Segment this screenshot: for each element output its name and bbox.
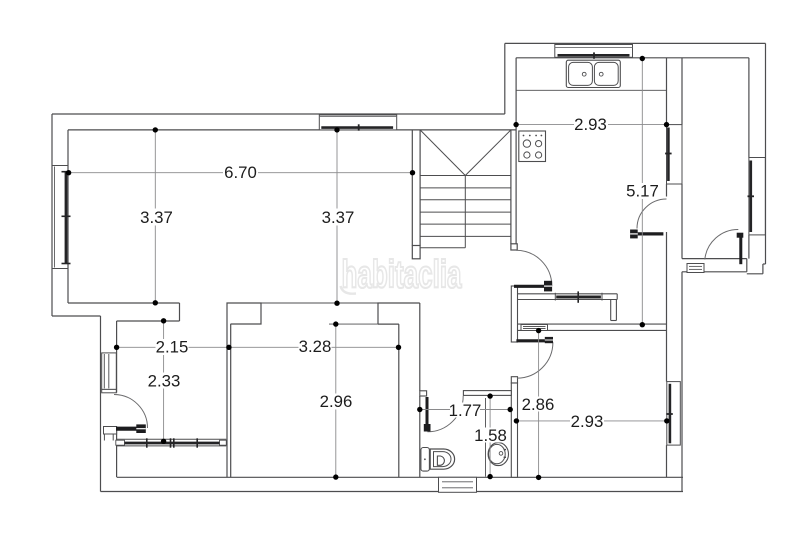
stair-kitchen partition left line	[510, 130, 512, 244]
wall stub left of hall	[227, 303, 261, 324]
right wall step vertical	[762, 264, 764, 274]
closet glazed band top line	[518, 293, 618, 295]
window W7 lower-left wall small window	[102, 353, 117, 390]
label 3.28	[299, 339, 332, 355]
dimension 2.33 line	[163, 321, 165, 442]
kitchen exterior left wall outer line	[504, 43, 506, 114]
label 2.15	[156, 339, 189, 355]
dimension 5.17 line	[641, 59, 643, 325]
svg-text:3.28: 3.28	[299, 337, 332, 356]
door D3 end post	[545, 337, 553, 343]
svg-text:habitaclia: habitaclia	[341, 252, 462, 295]
wall bottom inner line	[117, 476, 683, 478]
right wall inner line upper segment	[748, 58, 750, 158]
washbasin	[488, 443, 508, 466]
window W11 gallery bottom wall small window	[687, 264, 704, 273]
dimension 3.37 left line	[154, 130, 156, 303]
label 6.70	[223, 164, 258, 181]
dimension lines	[69, 59, 667, 478]
window W6 bottom-right room right wall	[666, 382, 680, 446]
dimension 2.93 bottom line	[516, 420, 666, 422]
dimension node dots	[66, 56, 670, 480]
label 2.96	[320, 394, 353, 410]
label 2.86	[522, 397, 554, 412]
room3 top wall bottom edge at stub	[378, 323, 399, 325]
window W1 left wall	[52, 166, 71, 269]
door D2 leaf	[514, 285, 548, 288]
label 5.17	[626, 183, 657, 199]
dimension 1.58 line	[489, 396, 491, 477]
window W4 gallery right wall	[748, 158, 766, 235]
door D1 leaf	[116, 427, 141, 431]
svg-text:2.93: 2.93	[574, 115, 607, 134]
room3 top thin line	[329, 323, 399, 325]
stairwell left wall inner line	[419, 130, 421, 246]
partition between small rooms left line	[226, 324, 228, 477]
closet right partition end cap	[611, 320, 617, 322]
gallery bottom wall bottom edge	[682, 271, 747, 273]
stairs diagonal left	[420, 130, 465, 176]
svg-text:6.70: 6.70	[224, 163, 257, 182]
right wall inner line lower segment	[748, 235, 750, 259]
svg-text:2.93: 2.93	[571, 412, 604, 431]
door D4 bottom blob	[424, 424, 431, 432]
closet glazed band right end	[616, 294, 618, 300]
gallery bottom wall right end cap	[746, 259, 748, 272]
wall lower-left inner vertical lower segment	[116, 427, 118, 478]
svg-text:1.58: 1.58	[474, 426, 507, 445]
watermark swoosh under h	[341, 286, 357, 294]
wall top exterior inner line	[68, 129, 516, 131]
stairs	[420, 130, 511, 248]
wall stub right of hall	[378, 303, 420, 324]
wall lower-left outer line	[100, 316, 102, 492]
stair-kitchen partition right line	[515, 58, 517, 244]
kitchen counter front line	[516, 89, 666, 91]
room3 right wall line	[398, 324, 400, 477]
dimension 1.77 line	[420, 409, 510, 411]
door D2 hall-kitchen arc	[516, 250, 552, 286]
window W9 lower-left glazed band	[116, 438, 227, 447]
closet bottom wall band bottom edge	[518, 329, 667, 331]
corridor left wall line lower	[419, 396, 421, 477]
bathroom right wall jamb box	[511, 377, 517, 383]
toilet	[421, 448, 455, 472]
bathroom door hinge jamb box	[420, 391, 427, 396]
dimension 2.86 line	[538, 331, 540, 478]
label 2.93 bottom	[570, 414, 604, 429]
stair-kitchen partition end cap	[511, 244, 517, 250]
bathroom separator thin line	[485, 398, 487, 477]
door D5 leaf	[638, 232, 664, 235]
right wall outer line	[765, 43, 767, 264]
kitchen top wall inner line	[516, 57, 749, 59]
kitchen-gallery wall right line segments	[681, 58, 683, 492]
svg-text:2.86: 2.86	[522, 395, 555, 414]
dimension 2.93 top line	[516, 124, 666, 126]
dimension 2.96 line	[335, 324, 337, 477]
label 1.77	[450, 403, 480, 418]
svg-text:2.96: 2.96	[320, 392, 353, 411]
door D3 leaf	[516, 339, 550, 342]
label 3.37 right	[322, 209, 355, 226]
door D6 gallery bottom arc	[705, 229, 739, 259]
closet left wall band	[511, 286, 517, 342]
svg-text:3.37: 3.37	[322, 208, 355, 227]
door D5 end post	[630, 230, 638, 239]
partition between small rooms right line	[230, 324, 232, 477]
door D1 jamb box top	[102, 389, 117, 392]
wall band living-room bottom top edge	[68, 302, 180, 304]
door D6 leaf	[739, 233, 742, 264]
gallery bottom wall top edge left part	[682, 258, 747, 260]
door D6 hinge blob	[737, 233, 744, 238]
bathroom top wall band	[463, 391, 511, 396]
kitchen top wall outer line	[505, 42, 766, 44]
hall opening thin line	[261, 302, 378, 304]
closet right partition left line	[610, 300, 612, 321]
wall left exterior outer line	[51, 114, 53, 316]
stairwell left wall outer line	[411, 130, 413, 246]
wall bottom outer line	[101, 491, 684, 493]
door D1 jamb box bottom	[104, 427, 117, 435]
dimension labels	[140, 115, 659, 445]
door D3 bottom room arc	[517, 342, 553, 378]
stairs diagonal right	[465, 130, 511, 176]
svg-text:1.77: 1.77	[449, 401, 482, 420]
dimension 6.70 line	[69, 172, 413, 174]
window W12 bathroom bottom wall window	[439, 477, 477, 492]
svg-text:3.37: 3.37	[140, 208, 173, 227]
label 3.37 left	[140, 209, 173, 226]
stairwell left wall end cap	[412, 246, 420, 259]
wall lower-left inner vertical upper segment	[116, 321, 118, 393]
right wall bottom cap line	[763, 263, 766, 265]
svg-text:5.17: 5.17	[626, 181, 659, 200]
label 2.93 top	[574, 116, 608, 133]
bathroom right wall band	[511, 383, 517, 477]
door D4 leaf	[426, 397, 429, 432]
watermark habitaclia	[341, 252, 462, 295]
label 2.33	[148, 373, 180, 389]
closet right partition right line	[615, 300, 617, 321]
wall piece below jamb	[103, 434, 105, 441]
door D2 end post	[544, 281, 552, 292]
corridor left wall line upper	[419, 303, 421, 391]
stairs center line	[464, 176, 466, 248]
wall left step bottom edge	[52, 315, 101, 317]
window W10 closet bottom wall small window	[521, 325, 548, 331]
right wall step horizontal	[747, 273, 763, 275]
wall band living-room bottom lower edge	[117, 320, 180, 322]
window W5 kitchen-gallery wall	[665, 125, 682, 184]
closet glazed band bottom line	[518, 299, 618, 301]
label 1.58	[476, 428, 505, 443]
window W3 kitchen top wall	[555, 45, 633, 59]
window W2 top wall	[319, 115, 396, 131]
window W8 closet glazed bar	[555, 291, 602, 302]
kitchen sink	[566, 60, 620, 87]
svg-text:2.15: 2.15	[156, 338, 189, 357]
door D1 arc	[114, 395, 148, 429]
dimension 2.15 and 3.28 line	[117, 346, 399, 348]
svg-text:2.33: 2.33	[148, 371, 181, 390]
wall top exterior outer line	[52, 113, 505, 115]
door D1 end post	[136, 424, 146, 433]
closet bottom wall band top edge	[518, 323, 667, 325]
kitchen stove	[519, 131, 546, 162]
kitchen-gallery wall left line segments	[666, 58, 668, 478]
dimension 3.37 right line	[336, 130, 338, 303]
wall left exterior inner line	[67, 130, 69, 303]
wall band living-room bottom right end	[179, 303, 181, 321]
door D4 bathroom arc	[427, 396, 463, 432]
door D5 kitchen-gallery arc	[637, 199, 667, 229]
